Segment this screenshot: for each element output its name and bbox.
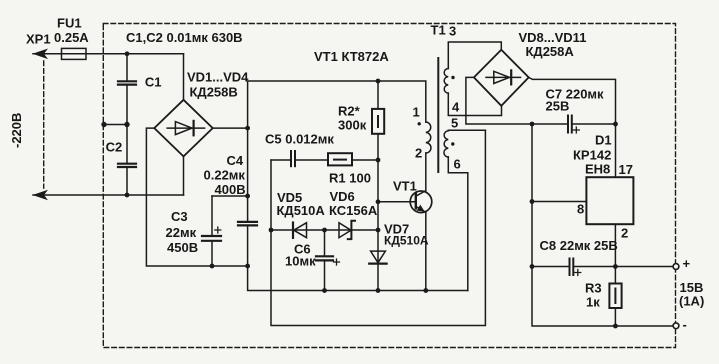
transformer T1 winding 3-4 xyxy=(444,42,501,116)
capacitor C8 (electrolytic) xyxy=(532,259,674,276)
svg-text:25В: 25В xyxy=(546,99,570,114)
svg-text:VD8...VD11: VD8...VD11 xyxy=(519,30,587,45)
svg-text:VD6: VD6 xyxy=(330,189,355,204)
wire: bridge1 plus (right corner) to node xyxy=(213,127,248,129)
transformer T1 primary winding 1-2 xyxy=(418,122,431,153)
bridge rectifier VD8...VD11 xyxy=(474,50,529,106)
wire: pin 2 output xyxy=(614,224,616,266)
capacitor C5 xyxy=(271,151,328,166)
wire: base drive vertical xyxy=(377,160,379,230)
junction: output plus node xyxy=(613,264,618,269)
junction: C3 on minus bus xyxy=(210,264,215,269)
junction: R1/R2 node xyxy=(376,158,381,163)
svg-text:C5 0.012мк: C5 0.012мк xyxy=(265,132,334,147)
capacitor C2 xyxy=(118,125,136,196)
svg-text:-: - xyxy=(683,317,687,332)
svg-text:400В: 400В xyxy=(215,182,246,197)
svg-text:ЕН8: ЕН8 xyxy=(585,162,610,177)
regulator D1 KP142EH8 xyxy=(586,177,633,224)
svg-text:R3: R3 xyxy=(585,281,602,296)
junction: VD7 on emitter bus xyxy=(376,288,381,293)
svg-text:3: 3 xyxy=(449,24,456,39)
diode VD5 xyxy=(293,223,307,238)
svg-text:C1: C1 xyxy=(145,75,162,90)
svg-text:300к: 300к xyxy=(338,118,367,133)
svg-text:6: 6 xyxy=(454,157,461,172)
wire: pin 8 lead xyxy=(532,201,586,203)
wire: bridge1 minus (left corner) down to primary minus bus xyxy=(146,128,247,266)
connector XP1 dashed plug line xyxy=(43,61,45,188)
svg-text:+: + xyxy=(683,256,691,271)
svg-text:2: 2 xyxy=(415,146,422,161)
junction: C3/C4 plus node xyxy=(245,194,250,199)
svg-text:КР142: КР142 xyxy=(573,148,611,163)
wire: bottom mains line (XP1 pin2 to bridge bottom) xyxy=(33,194,184,196)
enclosure dashed border xyxy=(103,24,675,348)
capacitor C4 xyxy=(238,128,257,266)
junction: emitter on bus xyxy=(423,288,428,293)
svg-text:8: 8 xyxy=(577,202,584,217)
svg-text:R2*: R2* xyxy=(338,104,361,119)
wire: C3 top to +310V node xyxy=(212,195,248,197)
wire: bridge2 minus (left corner) to common rail xyxy=(466,77,532,124)
junction: C4 on minus bus corner xyxy=(245,264,250,269)
transformer T1 core xyxy=(437,58,439,172)
junction: C6 on emitter bus xyxy=(322,288,327,293)
terminal: output plus xyxy=(673,264,679,270)
junction: VD6 cathode / VD7 anode / base node xyxy=(376,228,381,233)
svg-text:C2: C2 xyxy=(106,140,123,155)
diode VD7 xyxy=(369,230,386,291)
svg-text:22мк: 22мк xyxy=(166,225,197,240)
svg-text:1: 1 xyxy=(413,105,420,120)
resistor R1 xyxy=(328,153,378,165)
svg-text:C1,C2 0.01мк 630В: C1,C2 0.01мк 630В xyxy=(126,30,243,45)
svg-text:FU1: FU1 xyxy=(57,16,82,31)
svg-text:1к: 1к xyxy=(586,295,600,310)
capacitor C3 (electrolytic) xyxy=(202,196,221,266)
resistor R2 xyxy=(372,81,384,160)
svg-text:VT1: VT1 xyxy=(393,179,417,194)
svg-text:D1: D1 xyxy=(595,133,612,148)
svg-text:5: 5 xyxy=(451,116,458,131)
wire: primary minus bus step down and emitter bus xyxy=(248,266,468,291)
svg-text:2: 2 xyxy=(621,226,628,241)
junction: D1 input node xyxy=(613,122,618,127)
svg-text:450В: 450В xyxy=(167,240,198,255)
junction: bridge1 plus node xyxy=(245,126,250,131)
wire: emitter to bus xyxy=(425,212,427,290)
zener VD6 xyxy=(339,221,355,239)
resistor R3 xyxy=(609,267,621,327)
wire: +310V rail up and across to transformer xyxy=(248,81,426,128)
svg-text:-220В: -220В xyxy=(9,113,24,148)
svg-text:4: 4 xyxy=(452,100,460,115)
svg-text:XP1: XP1 xyxy=(26,32,51,47)
junction: bottom mains / C2 xyxy=(125,193,130,198)
wire: pin 17 input xyxy=(615,124,617,177)
svg-text:КД258В: КД258В xyxy=(190,85,238,100)
svg-text:КД510А: КД510А xyxy=(384,234,429,248)
svg-text:КД510А: КД510А xyxy=(277,203,326,218)
arrow XP1 pin 2 xyxy=(33,190,49,201)
svg-text:VT1 КТ872А: VT1 КТ872А xyxy=(314,49,389,64)
capacitor C6 (electrolytic) xyxy=(316,230,340,291)
junction: VD5/VD6 node xyxy=(322,228,327,233)
svg-text:КД258А: КД258А xyxy=(526,44,575,59)
junction: C1-C2 midpoint xyxy=(124,122,129,127)
svg-text:C8 22мк 25В: C8 22мк 25В xyxy=(540,238,618,253)
svg-text:10мк: 10мк xyxy=(285,254,316,269)
svg-text:R1 100: R1 100 xyxy=(329,171,371,186)
wire: diode row xyxy=(271,229,378,231)
junction: common rail top xyxy=(530,122,535,127)
svg-text:T1: T1 xyxy=(431,23,446,38)
wire: top mains drop to bridge top corner xyxy=(183,54,185,100)
junction: R2 top on +310V rail xyxy=(376,79,381,84)
transistor VT1 xyxy=(410,191,432,213)
junction: R3 on minus output xyxy=(613,324,618,329)
junction: base tap xyxy=(376,199,381,204)
wire: common rail vertical xyxy=(532,124,674,326)
wire: base lead to VT1 xyxy=(378,201,416,203)
svg-text:0.22мк: 0.22мк xyxy=(204,168,246,183)
svg-text:17: 17 xyxy=(619,162,633,177)
svg-text:C3: C3 xyxy=(171,209,188,224)
bridge rectifier VD1...VD4 xyxy=(154,100,212,157)
svg-text:0.25A: 0.25A xyxy=(54,30,89,45)
wire: bridge bottom corner stub xyxy=(183,156,185,195)
terminal: output minus xyxy=(673,323,679,329)
wire: feedback left vertical (C5/VD5 node to winding 5) xyxy=(271,130,485,325)
capacitor C1 xyxy=(118,54,136,125)
junction: midpoint on border xyxy=(101,122,106,127)
svg-text:КС156А: КС156А xyxy=(329,203,378,218)
fuse FU1 xyxy=(62,48,87,59)
wire: bridge2 plus (right corner) to C7/input xyxy=(529,77,616,124)
junction: pin8 tap xyxy=(530,199,535,204)
svg-text:VD1...VD4: VD1...VD4 xyxy=(187,70,249,85)
transformer T1 winding 5-6 xyxy=(444,130,485,290)
svg-text:C4: C4 xyxy=(227,153,244,168)
junction: C8 tap on common xyxy=(530,264,535,269)
wire: C1-C2 midpoint to screen border xyxy=(104,124,127,126)
wire: collector to primary winding xyxy=(425,153,427,191)
junction: top mains / C1 xyxy=(125,51,130,56)
wire: top mains line (XP1 pin1 to bridge) xyxy=(33,53,184,55)
junction: VD5 anode node xyxy=(269,228,274,233)
capacitor C7 (electrolytic) xyxy=(532,116,616,134)
svg-text:(1А): (1А) xyxy=(679,294,704,309)
arrow XP1 pin 1 xyxy=(33,49,49,60)
